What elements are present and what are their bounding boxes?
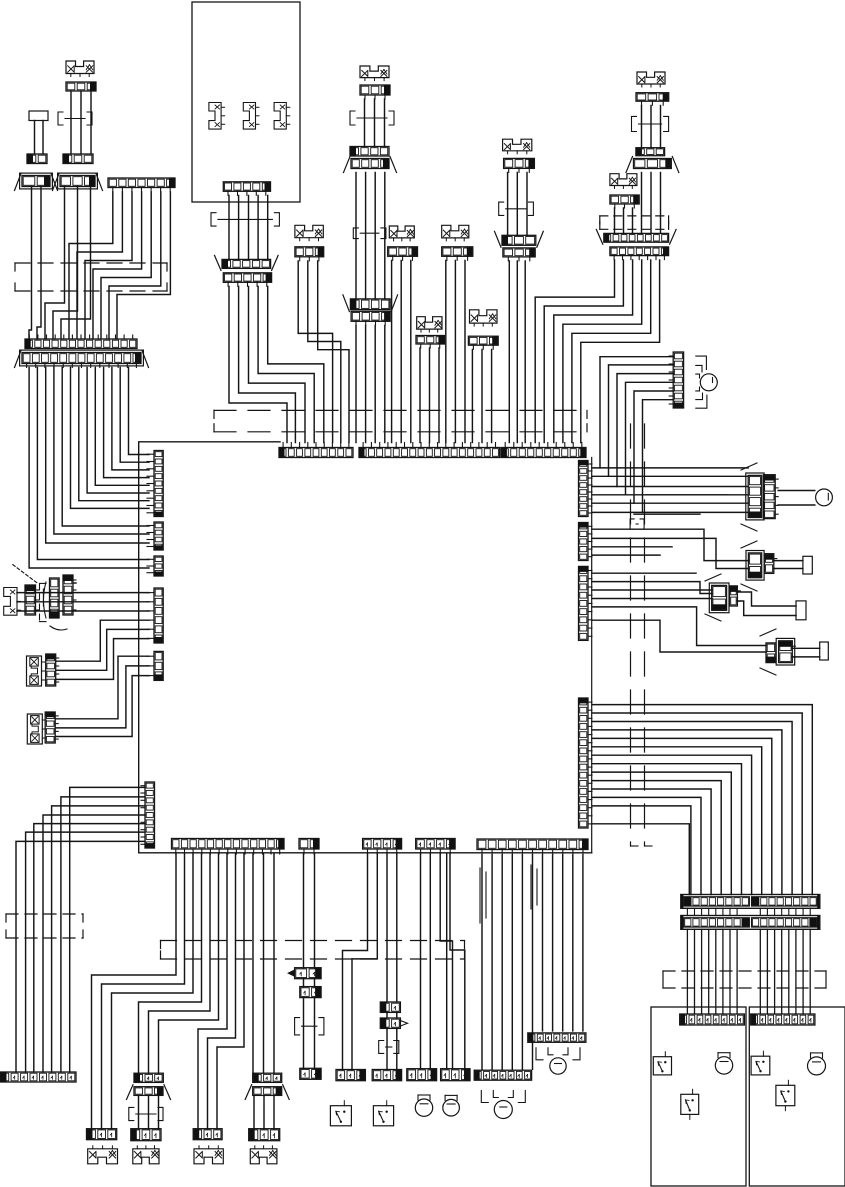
switch BR2a bbox=[751, 1051, 770, 1075]
wire bbox=[592, 538, 748, 568]
connector 3a bbox=[87, 1129, 117, 1140]
connector SG1b bbox=[50, 578, 60, 618]
wire bbox=[92, 854, 177, 1129]
switch SW2 bbox=[373, 1101, 393, 1126]
ECU pin strip T3 bbox=[501, 443, 586, 458]
relay RA1 coil bbox=[746, 473, 764, 520]
wire bbox=[454, 261, 456, 443]
wire bbox=[701, 908, 703, 915]
wire bbox=[592, 511, 748, 513]
wire bbox=[491, 350, 493, 443]
wire bbox=[592, 572, 696, 574]
wire bbox=[592, 824, 689, 895]
connector K bbox=[223, 273, 271, 287]
lamp unit LM6 bbox=[503, 139, 532, 154]
wire bbox=[43, 815, 145, 1072]
ECU block right edge bbox=[591, 458, 593, 853]
wire bbox=[592, 467, 748, 469]
connector S1 bbox=[336, 1070, 365, 1081]
connector LM4 bbox=[442, 247, 473, 260]
connector SG1c bbox=[63, 575, 76, 615]
wire bbox=[314, 998, 316, 1069]
wire bbox=[715, 929, 717, 1014]
wire bbox=[374, 326, 376, 443]
wire bbox=[535, 260, 614, 443]
connector BM2 bbox=[528, 1033, 586, 1042]
lamp unit LM1 bbox=[295, 225, 323, 240]
connector Q1 bbox=[380, 1002, 400, 1012]
wire bbox=[643, 400, 674, 513]
connector J bbox=[215, 255, 279, 270]
ECU pin strip L1 bbox=[147, 451, 163, 517]
wire bbox=[722, 908, 724, 915]
harness box center bbox=[214, 410, 587, 431]
wire bbox=[303, 979, 305, 987]
wire bbox=[52, 806, 145, 1072]
ECU pin strip B5 bbox=[477, 839, 588, 855]
wire bbox=[592, 705, 812, 895]
wire bbox=[69, 192, 113, 339]
wire bbox=[314, 854, 316, 968]
wire bbox=[365, 173, 367, 299]
connector TR2 bbox=[681, 916, 820, 930]
connector C bbox=[15, 173, 58, 190]
wire bbox=[694, 908, 696, 915]
wire bbox=[774, 560, 803, 562]
connector TRC2 bbox=[610, 247, 669, 260]
harness bracket 3b bbox=[129, 1107, 163, 1120]
wire bbox=[501, 855, 503, 1069]
wire bbox=[592, 722, 792, 895]
connector B1 bbox=[27, 154, 47, 164]
wire bbox=[109, 192, 161, 339]
relay RA2 contact bbox=[764, 554, 777, 574]
wire bbox=[386, 1012, 388, 1018]
wire bbox=[774, 568, 803, 570]
wire bbox=[263, 854, 265, 1073]
connector M1 bbox=[407, 1069, 437, 1081]
wire bbox=[62, 368, 149, 527]
connector SG1a bbox=[25, 585, 39, 615]
wire bbox=[766, 908, 768, 915]
lamp RA1 bbox=[816, 489, 833, 506]
ECU pin strip R2 bbox=[579, 523, 593, 561]
wire bbox=[592, 494, 748, 496]
harness box BL bbox=[6, 914, 83, 938]
wire bbox=[759, 929, 761, 1014]
wire bbox=[29, 187, 32, 340]
wire bbox=[396, 1012, 398, 1018]
harness box bottom bbox=[161, 941, 465, 960]
wire bbox=[532, 855, 534, 1069]
wire bbox=[600, 357, 674, 468]
dashed line V1 foot bbox=[631, 845, 639, 847]
lamp BR1b bbox=[715, 1053, 732, 1074]
wire bbox=[592, 502, 748, 504]
ECU pin strip L5 bbox=[147, 651, 163, 680]
terminal bar TB3 bbox=[796, 601, 806, 620]
lamp unit LM2 bbox=[389, 226, 414, 241]
connector 3b-2 bbox=[127, 1085, 171, 1100]
wire bbox=[641, 173, 643, 234]
wire bbox=[34, 121, 36, 155]
wire bbox=[249, 287, 306, 443]
wire bbox=[355, 326, 357, 443]
wire bbox=[391, 261, 393, 443]
connector CC2 bbox=[350, 147, 389, 157]
wire bbox=[481, 855, 483, 1069]
wire bbox=[308, 261, 341, 443]
switch BR1a bbox=[653, 1052, 671, 1075]
connector LM1 bbox=[295, 247, 324, 261]
wire bbox=[229, 287, 287, 443]
lamp unit CC bbox=[360, 66, 389, 81]
wire bbox=[614, 208, 616, 233]
wire bbox=[507, 173, 509, 236]
wire bbox=[686, 908, 688, 915]
wire bbox=[252, 854, 254, 1073]
ECU pin strip L2 bbox=[147, 522, 163, 550]
connector LM6c bbox=[503, 248, 535, 261]
ECU pin strip T3 left black cell bbox=[502, 448, 507, 457]
wire bbox=[778, 490, 815, 492]
wire bbox=[774, 929, 776, 1014]
wire bbox=[623, 208, 625, 233]
wire bbox=[737, 592, 796, 606]
relay assembly RA3 marks bbox=[705, 574, 721, 581]
wire bbox=[440, 854, 452, 1069]
wire bbox=[592, 755, 752, 894]
wire bbox=[445, 261, 447, 443]
connector LC2 bbox=[46, 654, 59, 686]
connector BM1 bbox=[474, 1070, 531, 1080]
lamp unit 3a bbox=[88, 1146, 118, 1164]
wire bbox=[56, 639, 149, 680]
wire bbox=[396, 1028, 398, 1069]
wire bbox=[79, 368, 149, 501]
connector BR2 bbox=[751, 1014, 815, 1025]
connector I bbox=[223, 182, 270, 196]
lamp R-aux fan bbox=[696, 356, 707, 408]
wire bbox=[809, 908, 811, 915]
relay RA3 coil bbox=[709, 583, 729, 613]
wire bbox=[102, 854, 185, 1129]
wire bbox=[781, 908, 783, 915]
dashed line V2 foot bbox=[645, 845, 653, 847]
connector CC3 bbox=[344, 157, 397, 173]
wire bbox=[61, 187, 91, 340]
wire bbox=[446, 854, 448, 1069]
wire bbox=[384, 99, 386, 147]
lamp unit LC2 bbox=[27, 656, 46, 686]
relay RA1 contact bbox=[763, 475, 778, 519]
lamp R-aux bbox=[700, 374, 717, 391]
wire bbox=[572, 260, 651, 443]
wire bbox=[238, 196, 240, 259]
wire bbox=[542, 855, 544, 1031]
wire bbox=[641, 106, 643, 148]
connector TRA2 bbox=[636, 148, 665, 156]
wire bbox=[343, 854, 368, 1070]
harness bracket I bbox=[211, 213, 279, 226]
motor MC2 bbox=[443, 1095, 460, 1116]
wire bbox=[352, 854, 377, 1070]
wire bbox=[592, 475, 748, 477]
harness bracket TRA bbox=[632, 116, 669, 131]
wire bbox=[464, 261, 466, 443]
wire bbox=[61, 797, 145, 1072]
harness bracket R2 bbox=[630, 519, 644, 529]
wire bbox=[95, 368, 149, 486]
wire bbox=[792, 656, 819, 658]
wire bbox=[268, 287, 324, 443]
wire bbox=[273, 854, 275, 1073]
relay assembly RA4 marks bbox=[760, 629, 776, 636]
wire bbox=[582, 855, 584, 1031]
wire bbox=[634, 391, 674, 503]
wire bbox=[148, 1096, 150, 1128]
ECU pin strip L3 bbox=[147, 556, 163, 576]
wire bbox=[592, 738, 772, 894]
wire bbox=[364, 99, 366, 147]
wire bbox=[592, 598, 712, 600]
ECU pin strip L4 bbox=[147, 588, 163, 643]
connector R-aux bbox=[669, 352, 683, 408]
wire bbox=[400, 261, 402, 443]
ECU pin strip B2 bbox=[299, 839, 319, 855]
wire bbox=[420, 854, 422, 1069]
ECU pin strip B3 bbox=[363, 839, 402, 855]
wire bbox=[17, 601, 149, 603]
harness box TL bbox=[15, 263, 167, 291]
connector TRA1 bbox=[636, 93, 669, 106]
wire bbox=[592, 730, 782, 895]
ECU pin strip R1 bbox=[579, 461, 593, 517]
relay RA3 contact bbox=[730, 586, 741, 606]
connector CC5 bbox=[343, 295, 398, 312]
wire bbox=[87, 368, 149, 494]
wire bbox=[592, 781, 721, 895]
wire bbox=[450, 854, 465, 1069]
wire bbox=[592, 764, 742, 895]
wire bbox=[626, 382, 674, 495]
wire bbox=[521, 855, 523, 1069]
connector A2 bbox=[63, 154, 93, 164]
wire bbox=[26, 832, 145, 1072]
wire bbox=[795, 908, 797, 915]
wire bbox=[766, 929, 768, 1014]
relay RA4 contact bbox=[776, 638, 795, 665]
wire bbox=[592, 797, 701, 894]
switch BR2c bbox=[776, 1080, 795, 1110]
wire bbox=[112, 854, 194, 1129]
connector P1 bbox=[295, 968, 322, 979]
wire bbox=[384, 173, 386, 299]
wire bbox=[592, 554, 660, 556]
wire bbox=[592, 789, 711, 895]
wire bbox=[70, 91, 72, 154]
ECU pin strip B1 bbox=[172, 839, 285, 855]
lamp unit LM5 bbox=[470, 310, 498, 326]
wire bbox=[120, 368, 149, 463]
connector 3c bbox=[193, 1129, 222, 1140]
wire bbox=[54, 368, 149, 535]
wire bbox=[592, 589, 712, 591]
wire bbox=[55, 656, 149, 719]
wire bbox=[508, 261, 510, 443]
wire bbox=[592, 620, 766, 652]
connector Q2 bbox=[380, 1018, 400, 1028]
connector M2 bbox=[441, 1069, 470, 1081]
harness box TR bbox=[600, 216, 669, 229]
connector CC1 bbox=[360, 85, 390, 99]
wire bbox=[802, 929, 804, 1014]
connector BR1 bbox=[680, 1014, 745, 1025]
lamp BR2b bbox=[808, 1053, 826, 1075]
wire bbox=[37, 187, 41, 340]
twisted pair marks bbox=[479, 868, 481, 923]
wire bbox=[736, 908, 738, 915]
wire bbox=[795, 929, 797, 1014]
lamp unit TR-B bbox=[610, 174, 637, 189]
terminal bar TB4 bbox=[820, 642, 829, 660]
wire bbox=[438, 348, 440, 443]
wire bbox=[701, 929, 703, 1014]
wire bbox=[253, 1096, 255, 1128]
lamp BM2 bbox=[536, 1048, 580, 1074]
diagonal lead SG1 bbox=[13, 565, 39, 584]
wire bbox=[374, 173, 376, 299]
relay box H bbox=[192, 2, 300, 202]
wire bbox=[90, 91, 92, 154]
wire bbox=[273, 1096, 275, 1128]
wire bbox=[70, 787, 145, 1072]
ECU pin strip R3 bbox=[579, 566, 593, 640]
relay symbol H2 bbox=[243, 103, 259, 130]
connector G bbox=[15, 350, 149, 367]
wire bbox=[17, 592, 149, 594]
wire bbox=[419, 348, 421, 443]
wire bbox=[34, 824, 145, 1072]
connector 3b-3 bbox=[131, 1129, 161, 1141]
wire bbox=[592, 607, 766, 646]
connector 3b-1 bbox=[134, 1073, 163, 1082]
harness bracket Q bbox=[379, 1041, 399, 1054]
wire bbox=[592, 747, 762, 895]
wire bbox=[617, 374, 674, 487]
wire bbox=[217, 854, 244, 1129]
harness box BR bbox=[663, 971, 826, 988]
relay symbol H3 bbox=[274, 103, 290, 130]
connector BL bbox=[1, 1072, 77, 1082]
ECU block outline bbox=[139, 442, 592, 853]
connector D bbox=[53, 173, 103, 190]
wire bbox=[258, 287, 314, 443]
wire bbox=[737, 601, 796, 616]
lamp unit 3b bbox=[133, 1146, 159, 1164]
connector S2 bbox=[372, 1070, 401, 1081]
ECU pin strip L6 bbox=[141, 782, 155, 848]
connector F bbox=[25, 335, 137, 349]
wire bbox=[384, 326, 386, 443]
wire bbox=[55, 676, 149, 737]
harness bracket LM6 bbox=[499, 202, 534, 215]
wire bbox=[80, 91, 82, 154]
wire bbox=[592, 772, 731, 894]
wire bbox=[55, 666, 149, 728]
wire bbox=[708, 908, 710, 915]
wire bbox=[592, 582, 712, 594]
connector TR1 bbox=[681, 895, 820, 909]
connector P3 bbox=[300, 1068, 321, 1079]
wire bbox=[592, 546, 672, 548]
wire bbox=[650, 106, 652, 148]
wire bbox=[778, 504, 815, 506]
wire bbox=[71, 368, 150, 509]
wire bbox=[516, 173, 518, 236]
wire bbox=[355, 173, 357, 299]
wire bbox=[563, 260, 642, 443]
wire bbox=[228, 196, 230, 259]
connector TRB1 bbox=[610, 195, 639, 208]
wire bbox=[29, 368, 149, 569]
wire bbox=[694, 929, 696, 1014]
motor MC1 bbox=[415, 1095, 432, 1116]
harness bracket A bbox=[58, 112, 92, 125]
wire bbox=[592, 486, 748, 488]
wire bbox=[117, 192, 170, 339]
connector LM6b bbox=[495, 231, 544, 247]
lamp unit A bbox=[66, 61, 94, 77]
lamp unit TR-A bbox=[637, 72, 665, 87]
wire bbox=[101, 192, 151, 339]
wire bbox=[158, 1096, 160, 1128]
wire bbox=[554, 260, 633, 443]
wire bbox=[632, 208, 634, 233]
wire bbox=[386, 1028, 388, 1069]
wire bbox=[248, 196, 250, 259]
wire bbox=[788, 929, 790, 1014]
relay symbol H1 bbox=[209, 103, 225, 130]
connector P2 bbox=[300, 987, 321, 998]
wire bbox=[544, 260, 623, 443]
wire bbox=[729, 908, 731, 915]
connector LC3 bbox=[45, 712, 58, 743]
wire bbox=[46, 368, 149, 544]
wire bbox=[722, 929, 724, 1014]
wire bbox=[809, 929, 811, 1014]
connector TRC1 bbox=[596, 229, 676, 244]
switch symbol SG1 bbox=[4, 588, 21, 616]
wire bbox=[129, 368, 150, 455]
switch SW1 bbox=[330, 1101, 351, 1126]
wire bbox=[17, 610, 149, 612]
terminal B bbox=[29, 111, 48, 121]
wire bbox=[257, 196, 259, 259]
wire bbox=[686, 929, 688, 1014]
switch BR1c bbox=[681, 1089, 699, 1119]
wire bbox=[42, 121, 44, 155]
lamp unit 3d bbox=[250, 1146, 277, 1164]
wire bbox=[729, 929, 731, 1014]
lamp unit LM3 bbox=[417, 317, 442, 332]
wire bbox=[239, 287, 296, 443]
wire bbox=[511, 855, 513, 1069]
lamp BM1 bbox=[481, 1091, 525, 1119]
dashes SG1 bbox=[39, 584, 41, 621]
connector A1 bbox=[66, 82, 96, 91]
harness bracket P bbox=[295, 1018, 324, 1035]
